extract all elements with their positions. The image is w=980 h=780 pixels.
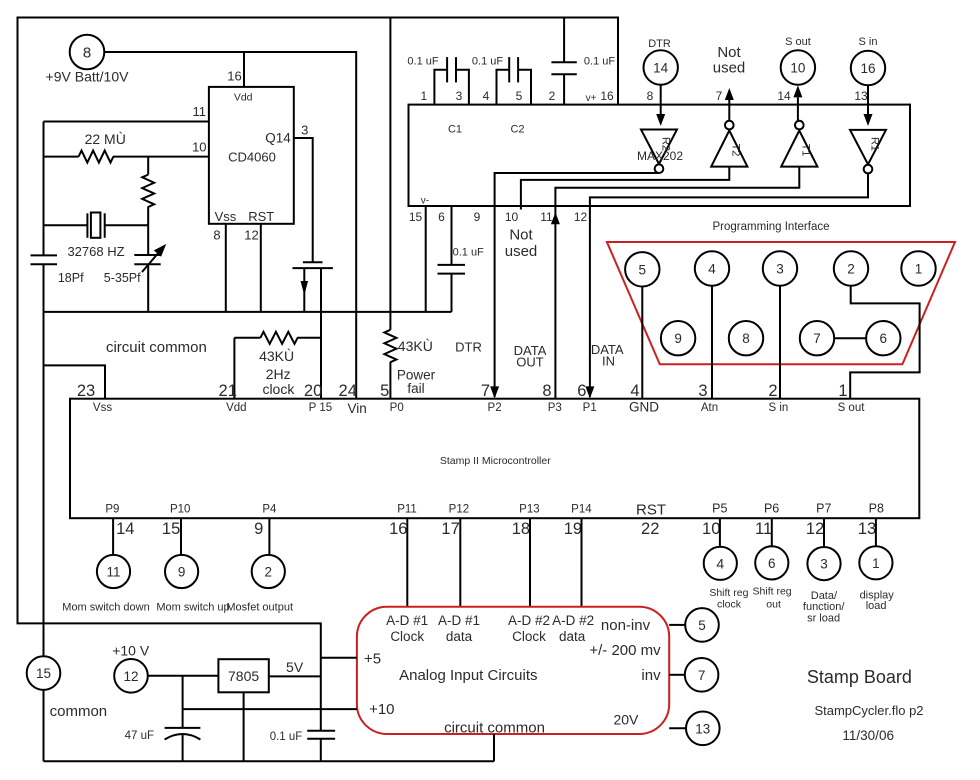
wire pin 11 bbox=[44, 121, 209, 123]
svg-text:T2: T2 bbox=[730, 144, 742, 157]
svg-text:P3: P3 bbox=[548, 402, 562, 414]
buffer T2 bbox=[711, 121, 747, 167]
svg-text:+10: +10 bbox=[369, 701, 394, 718]
label C1 value bbox=[407, 56, 438, 68]
capacitor C2 0.1uF bbox=[497, 57, 532, 105]
pin label GND bbox=[629, 400, 659, 415]
wire common rail to mid bbox=[43, 312, 45, 656]
svg-text:Mosfet output: Mosfet output bbox=[226, 601, 293, 613]
svg-text:6: 6 bbox=[768, 556, 776, 571]
node 12 +10V bbox=[114, 659, 148, 693]
ic U3 Stamp II bbox=[70, 399, 919, 519]
pin 1 number bbox=[838, 382, 847, 400]
capacitor C5 47uF bbox=[165, 728, 201, 761]
svg-text:+/- 200 mv: +/- 200 mv bbox=[589, 642, 661, 659]
svg-text:Vdd: Vdd bbox=[234, 92, 253, 104]
svg-text:R1: R1 bbox=[869, 137, 881, 151]
pin 7 circle bbox=[800, 321, 834, 355]
wire DATA IN net to P1 bbox=[585, 206, 594, 398]
pin 15 number bbox=[162, 520, 180, 538]
wire R1 out to pin12 bbox=[590, 173, 868, 206]
svg-text:P9: P9 bbox=[105, 503, 119, 515]
node S out 10 bbox=[781, 50, 815, 84]
pin label P13 bbox=[519, 503, 539, 515]
pin label v+ bbox=[586, 93, 597, 104]
pin 20 number bbox=[304, 382, 322, 400]
capacitor C6 0.1uF bbox=[307, 731, 335, 762]
svg-text:1: 1 bbox=[838, 382, 847, 400]
pin 16 label bbox=[600, 89, 614, 103]
wire P8 to node1 bbox=[875, 518, 877, 546]
svg-text:StampCycler.flo p2: StampCycler.flo p2 bbox=[814, 703, 923, 718]
svg-text:4: 4 bbox=[630, 382, 639, 400]
wire 20V to node13 bbox=[669, 727, 685, 729]
pin 6 label bbox=[438, 210, 445, 224]
svg-text:P2: P2 bbox=[488, 402, 502, 414]
pin 3 label bbox=[301, 123, 308, 138]
svg-text:17: 17 bbox=[441, 520, 459, 538]
svg-text:C2: C2 bbox=[510, 123, 524, 135]
wire pin14 to S out bbox=[793, 85, 802, 120]
svg-text:13: 13 bbox=[854, 89, 868, 103]
svg-text:7: 7 bbox=[481, 382, 490, 400]
svg-text:clock: clock bbox=[262, 381, 295, 397]
svg-text:7: 7 bbox=[698, 668, 706, 683]
label Programming Interface bbox=[713, 221, 830, 233]
pin 16 label bbox=[227, 69, 241, 84]
wire P9 to node 11 bbox=[112, 518, 114, 554]
svg-text:0.1 uF: 0.1 uF bbox=[453, 246, 484, 258]
label DTR bbox=[648, 38, 671, 50]
svg-text:data: data bbox=[446, 629, 473, 644]
label 5V bbox=[286, 659, 304, 675]
svg-text:Q14: Q14 bbox=[265, 131, 291, 146]
capacitor C-trim 5-35pf bbox=[134, 225, 160, 312]
pin 14 number bbox=[116, 520, 134, 538]
pin 14 label bbox=[777, 89, 791, 103]
resistor R-osc2 vertical bbox=[142, 157, 154, 226]
svg-text:A-D #2: A-D #2 bbox=[552, 613, 594, 628]
pin 12 label bbox=[574, 210, 588, 224]
svg-text:+10 V: +10 V bbox=[112, 642, 150, 658]
label 200mv bbox=[589, 642, 661, 659]
svg-text:3: 3 bbox=[776, 262, 784, 277]
pin 4 label bbox=[483, 89, 490, 103]
label 22 MU bbox=[85, 131, 126, 147]
pin 12 label bbox=[244, 228, 258, 243]
label common bbox=[50, 703, 108, 720]
svg-text:22: 22 bbox=[641, 520, 659, 538]
svg-text:Atn: Atn bbox=[701, 402, 718, 414]
buffer R1 bbox=[850, 130, 886, 174]
node 6 shift reg out bbox=[755, 546, 788, 579]
pin 2 label bbox=[549, 89, 556, 103]
pin label Vss bbox=[215, 209, 237, 224]
svg-text:IN: IN bbox=[602, 353, 615, 368]
svg-text:24: 24 bbox=[339, 382, 357, 400]
svg-text:v-: v- bbox=[421, 195, 429, 206]
svg-text:A-D #2: A-D #2 bbox=[508, 613, 550, 628]
svg-text:P1: P1 bbox=[583, 402, 597, 414]
svg-text:2: 2 bbox=[768, 382, 777, 400]
label A-D 1 data bbox=[438, 613, 480, 644]
pin label P8 bbox=[869, 501, 884, 515]
svg-text:used: used bbox=[713, 60, 746, 77]
wire 7805 out bbox=[269, 675, 321, 677]
pin 15 label bbox=[409, 210, 423, 224]
svg-text:out: out bbox=[766, 599, 781, 611]
svg-text:inv: inv bbox=[641, 667, 661, 684]
pin 7 label bbox=[716, 89, 723, 103]
pin 3 label bbox=[456, 89, 463, 103]
svg-text:8: 8 bbox=[83, 45, 91, 62]
label 5-35Pf bbox=[104, 271, 141, 285]
svg-text:Mom switch down: Mom switch down bbox=[62, 601, 149, 613]
pin label Vdd bbox=[226, 402, 246, 414]
label Stamp Board bbox=[807, 667, 912, 687]
buffer T1 bbox=[781, 121, 817, 167]
svg-text:P10: P10 bbox=[170, 503, 190, 515]
svg-text:0.1 uF: 0.1 uF bbox=[472, 56, 503, 68]
svg-text:9: 9 bbox=[474, 210, 481, 224]
label 20V bbox=[613, 712, 639, 728]
svg-text:common: common bbox=[50, 703, 108, 720]
svg-text:14: 14 bbox=[116, 520, 134, 538]
svg-text:12: 12 bbox=[244, 228, 258, 243]
pin 4 circle bbox=[695, 251, 729, 285]
pin 10 label bbox=[505, 210, 519, 224]
ground arrow to common bbox=[301, 268, 309, 312]
svg-text:P8: P8 bbox=[869, 501, 884, 515]
wire 47uF junction bbox=[182, 676, 184, 728]
svg-text:P7: P7 bbox=[816, 501, 831, 515]
svg-text:C1: C1 bbox=[448, 123, 462, 135]
connector J1 DB9 outline bbox=[607, 242, 955, 364]
svg-text:0.1 uF: 0.1 uF bbox=[407, 56, 438, 68]
svg-text:6: 6 bbox=[880, 331, 888, 346]
wire DB9-4 to Atn bbox=[711, 286, 713, 399]
node 5 non-inv bbox=[685, 608, 719, 642]
svg-text:10: 10 bbox=[192, 140, 206, 155]
svg-text:OUT: OUT bbox=[516, 354, 544, 369]
label 11/30/06 bbox=[842, 728, 894, 743]
node 3 data function bbox=[807, 547, 840, 580]
svg-text:fail: fail bbox=[407, 381, 424, 396]
svg-text:Clock: Clock bbox=[512, 629, 546, 644]
label DATA IN bbox=[591, 342, 624, 368]
pin 7 number bbox=[481, 382, 490, 400]
pin label S out bbox=[838, 402, 866, 414]
wire pin10 stub bbox=[520, 206, 522, 210]
wire CD4060 pin12 to common bbox=[260, 224, 262, 312]
label Stamp II Microcontroller bbox=[440, 455, 551, 467]
pin 2 number bbox=[768, 382, 777, 400]
svg-text:14: 14 bbox=[777, 89, 791, 103]
pin 1 circle bbox=[901, 251, 935, 285]
resistor R-powerfail 43K bbox=[384, 18, 396, 399]
svg-text:Shift reg: Shift reg bbox=[709, 587, 748, 599]
label 47 uF bbox=[125, 730, 154, 742]
pin 18 number bbox=[512, 520, 530, 538]
resistor R-osc 22M on pin10 wire bbox=[44, 151, 209, 163]
svg-text:P 15: P 15 bbox=[309, 402, 332, 414]
label +5 bbox=[364, 650, 381, 667]
label S out top bbox=[785, 36, 811, 48]
svg-text:5: 5 bbox=[639, 262, 647, 277]
label C2 bbox=[510, 123, 524, 135]
label 43KU power fail bbox=[397, 338, 436, 396]
svg-text:Mom switch up: Mom switch up bbox=[156, 601, 229, 613]
svg-text:3: 3 bbox=[820, 557, 828, 572]
label +10 bbox=[369, 701, 394, 718]
svg-text:43KÙ: 43KÙ bbox=[259, 348, 294, 364]
node 9 mom switch up bbox=[165, 555, 198, 588]
wire non-inv to node5 bbox=[669, 624, 684, 626]
pin 10 label bbox=[192, 140, 206, 155]
svg-text:RST: RST bbox=[248, 209, 274, 224]
svg-text:S in: S in bbox=[859, 36, 878, 48]
wire node12 to 7805 bbox=[148, 675, 218, 677]
svg-text:18Pf: 18Pf bbox=[58, 271, 84, 285]
svg-text:A-D #1: A-D #1 bbox=[438, 613, 480, 628]
svg-text:3: 3 bbox=[698, 382, 707, 400]
svg-text:15: 15 bbox=[409, 210, 423, 224]
svg-text:14: 14 bbox=[653, 61, 669, 76]
pin label Vdd bbox=[234, 92, 253, 104]
svg-text:circuit common: circuit common bbox=[106, 339, 207, 356]
pin label RST bbox=[636, 502, 666, 519]
svg-text:20V: 20V bbox=[613, 712, 639, 728]
pin label P11 bbox=[397, 503, 417, 515]
node 8 (+9V battery connector) bbox=[70, 35, 105, 70]
svg-text:DTR: DTR bbox=[648, 38, 671, 50]
svg-text:RST: RST bbox=[636, 502, 666, 519]
pin label v- bbox=[421, 195, 429, 206]
svg-text:16: 16 bbox=[389, 520, 407, 538]
wire P14 to AD2 data bbox=[581, 518, 583, 607]
svg-text:16: 16 bbox=[600, 89, 614, 103]
svg-text:11/30/06: 11/30/06 bbox=[842, 728, 894, 743]
wire bottom common rail bbox=[44, 760, 495, 762]
node 13 20V bbox=[686, 712, 720, 746]
wire P12 to AD1 data bbox=[459, 518, 461, 607]
label CD4060 bbox=[228, 150, 276, 165]
capacitor C-18pf bbox=[31, 255, 58, 312]
svg-text:8: 8 bbox=[742, 331, 750, 346]
label DTR mid bbox=[455, 340, 482, 355]
svg-text:43KÙ: 43KÙ bbox=[398, 338, 433, 354]
label circuit common analog bbox=[444, 720, 545, 737]
pin 22 number bbox=[641, 520, 659, 538]
crystal Y1 32768HZ bbox=[44, 213, 149, 238]
svg-text:10: 10 bbox=[505, 210, 519, 224]
node S in 16 bbox=[851, 51, 885, 85]
svg-text:7805: 7805 bbox=[228, 668, 259, 684]
svg-text:sr load: sr load bbox=[807, 612, 840, 624]
trimmer arrow bbox=[142, 244, 166, 272]
label +10 V bbox=[112, 642, 150, 658]
wire pin15 to common bbox=[425, 206, 427, 312]
pin label P4 bbox=[262, 503, 277, 515]
wire DATA OUT net to P3 bbox=[551, 206, 560, 399]
pin label P9 bbox=[105, 503, 119, 515]
pin 8 label bbox=[647, 89, 654, 103]
svg-text:1: 1 bbox=[915, 262, 923, 277]
pin 8 label bbox=[213, 228, 220, 243]
svg-text:15: 15 bbox=[162, 520, 180, 538]
wire Q14 output bbox=[294, 138, 313, 262]
svg-text:5: 5 bbox=[380, 382, 389, 400]
block analog input circuits bbox=[357, 607, 669, 734]
pin 8 circle bbox=[729, 321, 763, 355]
buffer R2 bbox=[641, 130, 677, 174]
svg-text:Stamp Board: Stamp Board bbox=[807, 667, 912, 687]
wire border-left and 5V feed bbox=[18, 18, 619, 731]
wire CD4060 pin16 stub bbox=[243, 52, 245, 87]
pin label P0 bbox=[390, 402, 404, 414]
pin 8 number bbox=[542, 382, 551, 400]
svg-text:+9V Batt/10V: +9V Batt/10V bbox=[46, 69, 130, 85]
svg-text:4: 4 bbox=[483, 89, 490, 103]
label non-inv bbox=[601, 617, 651, 634]
svg-text:P5: P5 bbox=[712, 501, 727, 515]
pin 5 label bbox=[516, 89, 523, 103]
node 1 display load bbox=[859, 546, 892, 579]
node 11 mom switch down bbox=[97, 555, 130, 588]
svg-text:CD4060: CD4060 bbox=[228, 150, 276, 165]
svg-text:11: 11 bbox=[106, 565, 120, 580]
svg-text:2: 2 bbox=[549, 89, 556, 103]
svg-text:P11: P11 bbox=[397, 503, 417, 515]
pin label P2 bbox=[488, 402, 502, 414]
svg-text:6: 6 bbox=[577, 382, 586, 400]
svg-text:data: data bbox=[559, 629, 586, 644]
wire T2 in to pin10 bbox=[521, 167, 729, 206]
svg-text:0.1 uF: 0.1 uF bbox=[584, 56, 615, 68]
wire S in to pin13 bbox=[864, 85, 873, 126]
label Mom switch up bbox=[156, 601, 229, 613]
pin 12 number bbox=[806, 520, 824, 538]
svg-text:+5: +5 bbox=[364, 650, 381, 667]
svg-text:12: 12 bbox=[123, 669, 138, 684]
pin label P12 bbox=[449, 503, 469, 515]
pin label P5 bbox=[712, 501, 727, 515]
svg-text:7: 7 bbox=[716, 89, 723, 103]
wire DB9-7 to DB9-6 bbox=[834, 337, 866, 339]
pin 21 number bbox=[219, 382, 237, 400]
label 18Pf bbox=[58, 271, 84, 285]
node 7 inv bbox=[685, 658, 719, 692]
svg-text:5: 5 bbox=[698, 618, 706, 633]
label display load bbox=[860, 590, 895, 613]
svg-text:function/: function/ bbox=[803, 601, 846, 613]
label circuit common bbox=[106, 339, 207, 356]
label Data function sr load bbox=[803, 590, 846, 624]
svg-text:9: 9 bbox=[178, 565, 186, 580]
node 15 common bbox=[27, 656, 61, 690]
wire DB9-2 to S out bbox=[850, 286, 919, 399]
svg-text:3: 3 bbox=[456, 89, 463, 103]
svg-text:47 uF: 47 uF bbox=[125, 730, 154, 742]
svg-text:Stamp II Microcontroller: Stamp II Microcontroller bbox=[440, 455, 551, 467]
svg-text:5V: 5V bbox=[286, 659, 304, 675]
pin 9 label bbox=[474, 210, 481, 224]
wire inv to node7 bbox=[669, 674, 684, 676]
svg-text:32768 HZ: 32768 HZ bbox=[67, 244, 124, 259]
svg-text:P14: P14 bbox=[571, 503, 592, 515]
svg-text:0.1 uF: 0.1 uF bbox=[270, 731, 303, 743]
svg-text:Not: Not bbox=[717, 44, 741, 61]
label Analog Input Circuits bbox=[399, 667, 537, 684]
pin 24 number bbox=[339, 382, 357, 400]
pin label P6 bbox=[764, 501, 779, 515]
wire pin7 not used bbox=[725, 88, 734, 121]
pin 5 circle bbox=[625, 252, 659, 286]
svg-text:S out: S out bbox=[785, 36, 811, 48]
pin 1 label bbox=[421, 89, 428, 103]
svg-text:Vss: Vss bbox=[215, 209, 237, 224]
label C6 value bbox=[270, 731, 303, 743]
wire +5 stub bbox=[321, 657, 357, 659]
pin 9 circle bbox=[661, 321, 695, 355]
pin 11 label bbox=[540, 210, 553, 224]
wire node15 to bottom rail bbox=[43, 690, 45, 761]
svg-text:9: 9 bbox=[674, 331, 682, 346]
label C2 value bbox=[472, 56, 503, 68]
pin 3 circle bbox=[763, 251, 797, 285]
svg-text:15: 15 bbox=[36, 666, 51, 681]
regulator U4 7805 bbox=[218, 659, 268, 692]
pin label P 15 bbox=[309, 402, 332, 414]
node 2 mosfet output bbox=[252, 555, 285, 588]
wire 7805 gnd bbox=[243, 692, 245, 761]
svg-text:Shift reg: Shift reg bbox=[753, 585, 792, 597]
svg-text:1: 1 bbox=[872, 556, 880, 571]
svg-text:T1: T1 bbox=[800, 144, 812, 157]
pin 11 label bbox=[193, 104, 207, 119]
pin 16 number bbox=[389, 520, 407, 538]
pin 5 number bbox=[380, 382, 389, 400]
wire common left rail upper bbox=[43, 122, 45, 256]
pin 17 number bbox=[441, 520, 459, 538]
pin 6 number bbox=[577, 382, 586, 400]
svg-text:4: 4 bbox=[716, 556, 724, 572]
pin 2 circle bbox=[834, 251, 868, 285]
label inv bbox=[641, 667, 661, 684]
svg-text:Programming Interface: Programming Interface bbox=[713, 221, 830, 233]
svg-text:MAX202: MAX202 bbox=[637, 149, 683, 163]
pin label RST bbox=[248, 209, 274, 224]
capacitor C-q14 to common bbox=[293, 262, 333, 268]
svg-text:11: 11 bbox=[755, 520, 772, 538]
wire R2 out to pin9 bbox=[495, 173, 659, 206]
svg-text:13: 13 bbox=[858, 520, 876, 538]
wire P15 net bbox=[320, 268, 322, 399]
label C1 bbox=[448, 123, 462, 135]
wire P4 to node 2 bbox=[268, 518, 270, 554]
svg-text:12: 12 bbox=[574, 210, 588, 224]
svg-text:6: 6 bbox=[438, 210, 445, 224]
pin label P7 bbox=[816, 501, 831, 515]
resistor R-2hz 43K bbox=[234, 332, 321, 399]
svg-text:9: 9 bbox=[254, 520, 263, 538]
pin label P3 bbox=[548, 402, 562, 414]
pin 9 number bbox=[254, 520, 263, 538]
capacitor C1 0.1uF bbox=[434, 57, 469, 105]
svg-text:clock: clock bbox=[717, 599, 742, 611]
pin label P1 bbox=[583, 402, 597, 414]
svg-text:8: 8 bbox=[647, 89, 654, 103]
